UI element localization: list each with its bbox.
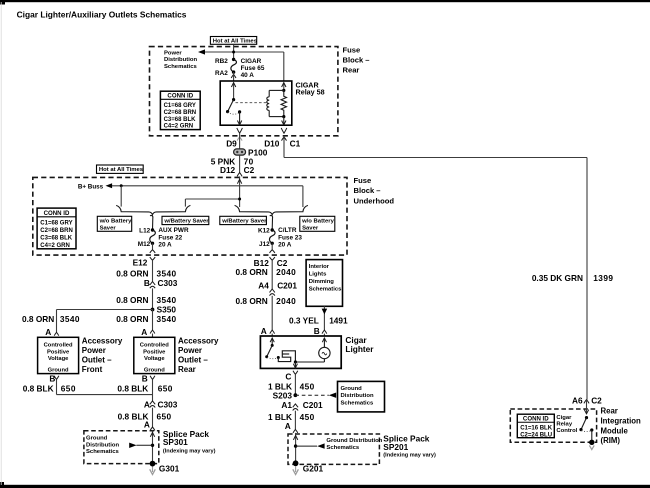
- svg-text:Schematics: Schematics: [164, 64, 197, 70]
- svg-text:Block –: Block –: [343, 55, 370, 64]
- terminal A cigar lighter: [261, 326, 275, 336]
- svg-text:B: B: [144, 278, 150, 288]
- terminal E12: [133, 257, 156, 268]
- svg-text:0.8 ORN: 0.8 ORN: [116, 314, 148, 324]
- conn id table (underhood): [37, 208, 76, 249]
- svg-text:Distribution: Distribution: [86, 442, 119, 448]
- relay: CIGAR Relay 58 (U outline): [220, 80, 324, 125]
- svg-text:Fuse: Fuse: [343, 45, 361, 54]
- terminal B front outlet: [49, 374, 59, 384]
- terminal D9 at relay: [226, 128, 242, 149]
- svg-text:1491: 1491: [329, 316, 348, 326]
- svg-text:E12: E12: [133, 258, 148, 268]
- svg-text:L12: L12: [139, 227, 150, 234]
- wire: cigar relay control D10/C1 to RIM (0.35 DK GRN 1399): [284, 137, 613, 400]
- svg-text:Positive: Positive: [47, 349, 70, 355]
- cigar lighter lamp: [295, 338, 330, 362]
- connector C201 pin A1: [281, 400, 323, 411]
- fuse block underhood enclosure: [33, 176, 395, 255]
- connector P100 (pass-through grommet): [234, 147, 268, 157]
- terminal D12 / connector C2 into underhood block: [220, 165, 255, 176]
- wire: battery saver bus: [185, 199, 239, 207]
- svg-text:w/Battery Saver: w/Battery Saver: [163, 219, 209, 225]
- svg-text:Lighter: Lighter: [345, 344, 374, 354]
- svg-text:C/LTR: C/LTR: [278, 227, 297, 234]
- svg-text:J12: J12: [259, 241, 270, 248]
- relay mechanical link (dashed): [236, 102, 268, 104]
- ground G301: [150, 461, 180, 475]
- terminal D10 / connector C1: [264, 128, 300, 149]
- svg-text:40 A: 40 A: [241, 72, 255, 79]
- svg-text:Cigar Lighter/Auxiliary Outlet: Cigar Lighter/Auxiliary Outlets Schemati…: [17, 10, 187, 20]
- svg-text:w/o Battery: w/o Battery: [301, 219, 334, 225]
- arrow to B+ buss: [106, 183, 113, 188]
- svg-text:C2=24 BLU: C2=24 BLU: [520, 432, 552, 438]
- svg-text:Dimming: Dimming: [309, 279, 335, 285]
- svg-text:SP201: SP201: [383, 442, 408, 452]
- connector C201 pin A4: [258, 280, 297, 295]
- svg-text:B: B: [314, 326, 320, 336]
- wire: S350 branch to front outlet, 0.8 ORN 3540: [22, 310, 152, 333]
- svg-text:Fuse: Fuse: [354, 176, 372, 185]
- node: B+ bus tap: [120, 184, 123, 187]
- svg-text:C3=68 BLK: C3=68 BLK: [164, 117, 197, 123]
- cigar lighter heating element: [277, 351, 296, 362]
- svg-text:Integration: Integration: [601, 417, 642, 426]
- svg-text:Fuse 22: Fuse 22: [158, 234, 182, 241]
- svg-text:Cigar: Cigar: [556, 415, 572, 421]
- svg-text:Voltage: Voltage: [144, 356, 165, 362]
- svg-text:Schematics: Schematics: [326, 445, 359, 451]
- terminal B rear outlet: [142, 374, 155, 384]
- svg-text:0.8 BLK: 0.8 BLK: [117, 383, 148, 393]
- svg-text:w/o Battery: w/o Battery: [99, 219, 132, 225]
- svg-text:3540: 3540: [60, 314, 80, 324]
- svg-text:3540: 3540: [157, 268, 177, 278]
- svg-text:Front: Front: [82, 365, 103, 374]
- node: element/lamp common: [294, 360, 297, 363]
- reference: ground distribution schematics (S203): [295, 381, 384, 412]
- svg-text:C2: C2: [591, 396, 602, 406]
- svg-text:Outlet –: Outlet –: [82, 356, 112, 365]
- conn id table (RIM): [517, 414, 554, 438]
- terminal B cigar lighter: [314, 326, 327, 336]
- ground G201: [293, 460, 324, 474]
- svg-text:20 A: 20 A: [278, 242, 292, 249]
- wire: D9 to P100: [239, 133, 241, 149]
- svg-text:0.8 ORN: 0.8 ORN: [22, 314, 54, 324]
- svg-text:S350: S350: [157, 304, 177, 314]
- wire: 0.3 YEL 1491 from dimming to cigar lamp: [289, 306, 348, 330]
- svg-text:A: A: [285, 421, 291, 431]
- wire: common to terminal C: [293, 362, 297, 368]
- svg-text:A: A: [144, 420, 150, 430]
- svg-text:C1=68 GRY: C1=68 GRY: [164, 103, 196, 109]
- svg-text:Interior: Interior: [309, 264, 330, 270]
- svg-text:Schematics: Schematics: [309, 286, 342, 292]
- svg-text:C2: C2: [244, 165, 255, 175]
- wire: bus drop to fuse 22 left: [120, 186, 122, 207]
- interior lights dimming schematics box: [306, 260, 342, 307]
- svg-text:Distribution: Distribution: [341, 393, 374, 399]
- svg-text:Schematics: Schematics: [341, 401, 374, 407]
- svg-text:0.8 ORN: 0.8 ORN: [116, 295, 148, 305]
- fuse block rear enclosure: [150, 45, 370, 135]
- svg-text:A1: A1: [281, 400, 292, 410]
- accessory power outlet - front (box): [38, 336, 123, 374]
- wire: rear outlet ground 0.8 BLK 650: [117, 379, 172, 401]
- svg-text:Ground: Ground: [48, 367, 69, 373]
- svg-text:Underhood: Underhood: [354, 196, 395, 205]
- connector C303 pin B: [144, 278, 178, 288]
- optional-feed brace for fuse 23: [235, 205, 308, 214]
- rear integration module enclosure: [510, 407, 641, 445]
- svg-text:SP301: SP301: [163, 437, 188, 447]
- arrow to power distribution: [198, 49, 205, 54]
- label box: w/Battery Saver (fuse 23): [220, 216, 267, 224]
- svg-text:0.8 ORN: 0.8 ORN: [236, 267, 268, 277]
- svg-text:Ground: Ground: [144, 367, 165, 373]
- svg-text:650: 650: [157, 411, 172, 421]
- relay coil branch: [267, 83, 286, 117]
- wire: 0.8 BLK 650 to SP301: [118, 408, 172, 427]
- wire: D12 main feed into underhood block: [237, 176, 241, 207]
- svg-text:0.8 ORN: 0.8 ORN: [116, 268, 148, 278]
- node: SP201 tap: [294, 444, 297, 447]
- svg-text:2040: 2040: [276, 296, 296, 306]
- svg-text:Power: Power: [82, 346, 106, 355]
- terminal A rear outlet: [141, 327, 155, 338]
- reference: ground distribution schematics (SP301): [86, 435, 153, 455]
- node: coil bottom: [282, 115, 285, 118]
- svg-text:C201: C201: [303, 400, 323, 410]
- wire: fuse 23 output to boundary: [270, 243, 275, 253]
- svg-text:650: 650: [61, 383, 76, 393]
- svg-text:M12: M12: [138, 241, 151, 248]
- wire: 0.8 ORN 2040 (B12 to C201): [236, 260, 297, 289]
- svg-text:Saver: Saver: [302, 225, 319, 231]
- svg-text:(RIM): (RIM): [601, 436, 621, 445]
- svg-text:Relay 58: Relay 58: [296, 88, 325, 97]
- relay switch contacts: [226, 83, 242, 125]
- connector C303 pin A: [144, 400, 178, 410]
- svg-text:Hot at All Times: Hot at All Times: [213, 38, 258, 44]
- svg-text:Saver: Saver: [100, 225, 117, 231]
- svg-text:G201: G201: [303, 463, 324, 473]
- wire: hot feed bus (rear block): [201, 44, 284, 81]
- svg-text:C303: C303: [158, 278, 178, 288]
- svg-text:Ground: Ground: [341, 386, 363, 392]
- svg-text:450: 450: [300, 381, 315, 391]
- label box: w/Battery Saver (fuse 22): [162, 216, 209, 224]
- svg-text:Power: Power: [164, 51, 182, 57]
- svg-text:(Indexing may vary): (Indexing may vary): [163, 449, 216, 455]
- svg-text:C2=68 BRN: C2=68 BRN: [164, 110, 197, 116]
- svg-text:20 A: 20 A: [158, 242, 172, 249]
- svg-text:C4=2 GRN: C4=2 GRN: [164, 124, 194, 130]
- splice pack SP201 enclosure: [288, 434, 436, 465]
- wire: into SP301: [150, 430, 154, 463]
- terminal A front outlet: [45, 327, 59, 337]
- fuse 22 AUX PWR 20A (terminals L12/M12): [138, 227, 189, 249]
- wire: 5 PNK 70: [211, 155, 254, 172]
- terminal A at SP201: [285, 421, 298, 433]
- svg-text:C: C: [285, 371, 291, 381]
- svg-text:Power: Power: [178, 346, 202, 355]
- svg-text:AUX PWR: AUX PWR: [158, 227, 189, 234]
- svg-text:Voltage: Voltage: [48, 356, 69, 362]
- wire: 1 BLK 450 to SP201: [268, 411, 315, 430]
- accessory power outlet - rear (box): [134, 336, 219, 374]
- optional-feed brace for fuse 22: [116, 205, 190, 214]
- node: SP301 tap: [151, 444, 154, 447]
- svg-text:K12: K12: [258, 227, 270, 234]
- svg-text:Lights: Lights: [309, 271, 327, 277]
- svg-text:A6: A6: [572, 396, 583, 406]
- svg-text:D12: D12: [220, 165, 236, 175]
- svg-text:Module: Module: [601, 426, 629, 435]
- svg-text:(Indexing may vary): (Indexing may vary): [383, 453, 436, 459]
- svg-text:A: A: [45, 327, 51, 337]
- splice pack SP301 enclosure: [84, 429, 216, 464]
- svg-text:A4: A4: [258, 280, 269, 290]
- label box: w/o Battery Saver (right): [300, 216, 335, 231]
- RIM internal ground: [589, 440, 594, 450]
- svg-text:3540: 3540: [157, 314, 177, 324]
- terminal C cigar lighter: [285, 371, 297, 382]
- svg-text:Rear: Rear: [601, 407, 618, 416]
- power label: Hot at All Times (underhood): [97, 165, 144, 173]
- wire: S350 down to rear outlet, 0.8 ORN 3540: [116, 310, 176, 331]
- svg-text:Block –: Block –: [354, 186, 381, 195]
- terminal A6 / connector C2 at RIM: [572, 396, 602, 406]
- svg-text:Distribution: Distribution: [164, 57, 197, 63]
- wire: B+ buss (w/o battery saver bus): [78, 183, 303, 207]
- terminal A at SP301: [144, 420, 155, 431]
- svg-text:A: A: [261, 326, 267, 336]
- terminal B12 / connector C2: [254, 257, 288, 268]
- svg-text:C303: C303: [158, 400, 178, 410]
- wire: into SP201: [293, 433, 297, 463]
- svg-text:0.8 BLK: 0.8 BLK: [23, 383, 54, 393]
- svg-text:Accessory: Accessory: [178, 336, 219, 345]
- label: cigar relay control: [556, 415, 577, 434]
- svg-text:0.35 DK GRN: 0.35 DK GRN: [532, 273, 583, 283]
- reference: ground distribution schematics (SP201): [296, 438, 383, 451]
- svg-text:Ground: Ground: [86, 435, 108, 441]
- wire: 1 BLK 450 (C to S203): [268, 374, 315, 395]
- svg-text:RA2: RA2: [215, 70, 228, 77]
- svg-text:650: 650: [158, 383, 173, 393]
- svg-text:CONN ID: CONN ID: [44, 210, 70, 217]
- svg-text:Control: Control: [556, 428, 577, 434]
- svg-text:Accessory: Accessory: [82, 336, 123, 345]
- splice S203: [273, 391, 298, 401]
- svg-text:B: B: [142, 374, 148, 384]
- fuse 65 CIGAR 40A (terminals RB2/RA2): [215, 58, 265, 81]
- cigar lighter (box): [260, 335, 374, 368]
- svg-text:Controlled: Controlled: [140, 343, 169, 349]
- svg-text:2040: 2040: [276, 267, 296, 277]
- svg-text:C1=16 BLK: C1=16 BLK: [520, 425, 553, 431]
- node: battery saver tap: [238, 198, 241, 201]
- svg-text:C4=2 GRN: C4=2 GRN: [40, 243, 70, 249]
- note: Power Distribution Schematics: [164, 51, 197, 70]
- svg-text:RB2: RB2: [215, 58, 228, 65]
- svg-text:0.3 YEL: 0.3 YEL: [289, 316, 319, 326]
- svg-text:Rear: Rear: [343, 65, 360, 74]
- svg-text:CONN ID: CONN ID: [523, 416, 549, 423]
- wire: front outlet ground 0.8 BLK 650: [23, 379, 153, 394]
- svg-text:Rear: Rear: [178, 365, 196, 374]
- wire: fuse 22 output to boundary: [150, 243, 155, 253]
- relay coil resistor: [281, 90, 286, 116]
- svg-text:D9: D9: [226, 139, 237, 149]
- svg-text:A: A: [141, 327, 147, 337]
- cigar lighter switch: [265, 338, 277, 359]
- splice S350: [151, 304, 177, 314]
- svg-text:G301: G301: [159, 464, 180, 474]
- svg-text:450: 450: [300, 412, 315, 422]
- svg-text:Controlled: Controlled: [44, 343, 73, 349]
- svg-text:CONN ID: CONN ID: [167, 93, 193, 100]
- svg-text:C1: C1: [290, 139, 301, 149]
- svg-text:Hot at All Times: Hot at All Times: [99, 167, 144, 173]
- wire: 0.8 ORN 3540 (C303 to S350): [116, 288, 176, 309]
- conn id table (rear): [160, 91, 200, 129]
- svg-text:w/Battery Saver: w/Battery Saver: [221, 219, 267, 225]
- svg-text:C201: C201: [277, 280, 297, 290]
- svg-text:Positive: Positive: [143, 349, 166, 355]
- svg-text:1399: 1399: [593, 273, 613, 283]
- svg-text:Schematics: Schematics: [86, 449, 119, 455]
- svg-text:C1=68 GRY: C1=68 GRY: [40, 221, 72, 227]
- svg-text:0.8 ORN: 0.8 ORN: [236, 296, 268, 306]
- svg-text:Fuse 23: Fuse 23: [278, 234, 302, 241]
- node: hot bus junction: [232, 51, 235, 54]
- power feed label: Hot at All Times: [210, 37, 257, 45]
- svg-text:A: A: [144, 400, 150, 410]
- svg-text:Ground Distribution: Ground Distribution: [326, 438, 382, 444]
- svg-text:Relay: Relay: [556, 422, 572, 428]
- RIM driver switch: [579, 400, 593, 443]
- label box: w/o Battery Saver (left): [97, 216, 132, 231]
- svg-text:B+ Buss: B+ Buss: [78, 183, 104, 190]
- wire: 0.8 ORN 2040 (C201 to cigar lighter): [236, 296, 297, 330]
- svg-text:C2=68 BRN: C2=68 BRN: [40, 228, 73, 234]
- svg-text:C3=68 BLK: C3=68 BLK: [40, 235, 73, 241]
- wire: 0.8 ORN 3540 (E12 to C303): [116, 260, 176, 281]
- svg-text:B: B: [49, 374, 55, 384]
- svg-text:Outlet –: Outlet –: [178, 356, 208, 365]
- fuse 23 C/LTR 20A (terminals K12/J12): [258, 227, 302, 249]
